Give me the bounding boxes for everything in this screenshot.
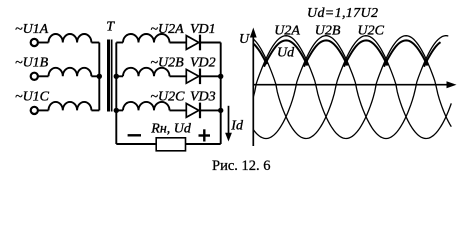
svg-text:T: T: [106, 19, 115, 34]
svg-text:~U2B: ~U2B: [150, 56, 184, 71]
svg-text:~U2C: ~U2C: [150, 90, 185, 105]
svg-text:Id: Id: [230, 119, 244, 134]
svg-text:~U2A: ~U2A: [150, 22, 184, 37]
svg-text:VD3: VD3: [190, 90, 216, 105]
svg-text:Ud: Ud: [277, 46, 295, 61]
svg-text:VD2: VD2: [190, 56, 216, 71]
svg-text:U2B: U2B: [315, 24, 341, 39]
svg-text:~U1A: ~U1A: [15, 22, 49, 37]
svg-text:Rн, Ud: Rн, Ud: [150, 121, 192, 136]
svg-text:Рис. 12. 6: Рис. 12. 6: [212, 158, 271, 174]
svg-text:U2C: U2C: [358, 24, 385, 39]
svg-text:VD1: VD1: [190, 22, 216, 37]
svg-text:~U1B: ~U1B: [15, 56, 49, 71]
svg-text:Ud=1,17U2: Ud=1,17U2: [307, 6, 378, 21]
svg-text:U: U: [239, 32, 250, 47]
svg-text:~U1C: ~U1C: [15, 90, 50, 105]
svg-text:U2A: U2A: [274, 24, 300, 39]
